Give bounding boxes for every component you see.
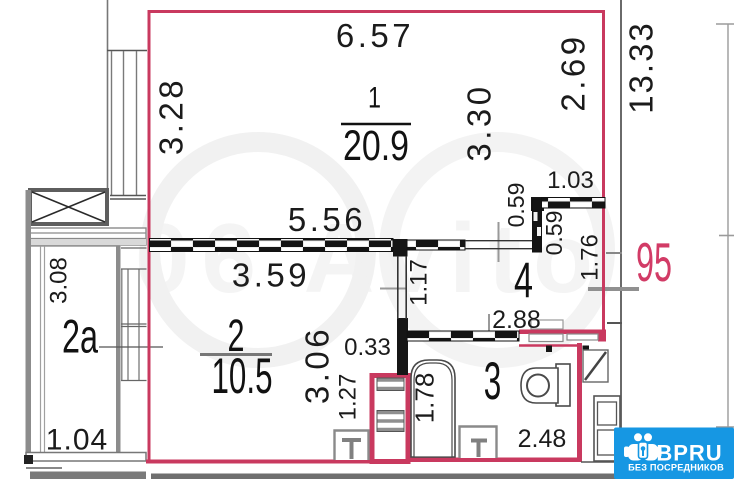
svg-text:0.59: 0.59: [541, 211, 567, 256]
svg-text:4: 4: [514, 253, 533, 309]
svg-text:3: 3: [484, 352, 502, 411]
svg-text:1: 1: [368, 82, 381, 115]
svg-text:5.56: 5.56: [288, 201, 366, 238]
svg-text:3.59: 3.59: [232, 257, 310, 294]
svg-text:3.30: 3.30: [461, 83, 498, 161]
svg-text:1.78: 1.78: [410, 373, 440, 424]
svg-text:20.9: 20.9: [343, 122, 409, 170]
svg-text:1.04: 1.04: [46, 424, 108, 457]
svg-text:2.88: 2.88: [492, 306, 541, 334]
svg-text:10.5: 10.5: [212, 348, 273, 404]
svg-text:2.48: 2.48: [518, 425, 567, 453]
svg-text:95: 95: [636, 231, 672, 293]
svg-text:1.76: 1.76: [577, 234, 604, 281]
svg-text:0.59: 0.59: [503, 183, 529, 228]
svg-text:3.08: 3.08: [46, 257, 73, 304]
svg-text:6.57: 6.57: [336, 17, 414, 54]
svg-text:2.69: 2.69: [555, 33, 592, 111]
svg-text:БЕЗ ПОСРЕДНИКОВ: БЕЗ ПОСРЕДНИКОВ: [628, 463, 724, 473]
svg-text:2a: 2a: [62, 310, 99, 363]
svg-text:1.27: 1.27: [335, 374, 362, 421]
svg-text:0.33: 0.33: [344, 334, 391, 361]
svg-text:3.28: 3.28: [153, 77, 190, 155]
svg-text:13.33: 13.33: [623, 21, 660, 114]
svg-text:1.03: 1.03: [547, 167, 594, 194]
svg-text:3.06: 3.06: [299, 326, 336, 404]
svg-text:1.17: 1.17: [406, 259, 433, 306]
